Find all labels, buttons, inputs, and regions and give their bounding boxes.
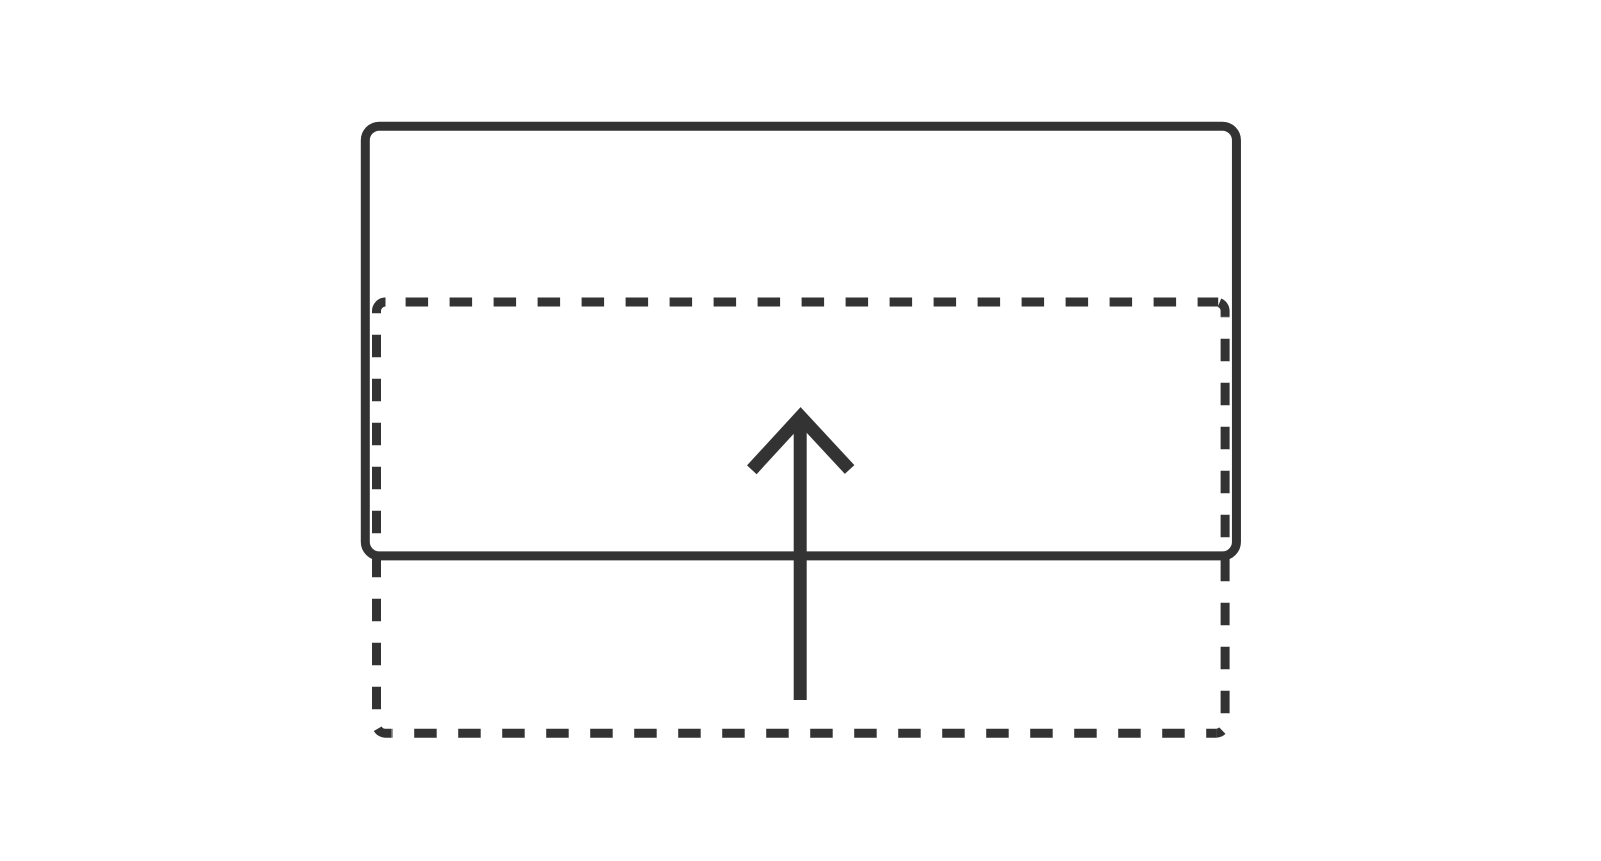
arrow shaft [794,424,807,700]
dashed box bottom edge [392,729,1216,738]
dashed box right edge [1221,317,1230,724]
dashed box top-left corner [377,302,386,313]
dashed box bottom-left corner [378,729,392,734]
dashed box top-right corner [1220,303,1226,317]
arrow head [752,417,850,470]
dashed box top edge [386,298,1219,307]
solid rounded box (outer viewport) [365,126,1236,556]
dashed box bottom-right corner [1216,731,1222,734]
dashed box left edge [372,313,381,724]
